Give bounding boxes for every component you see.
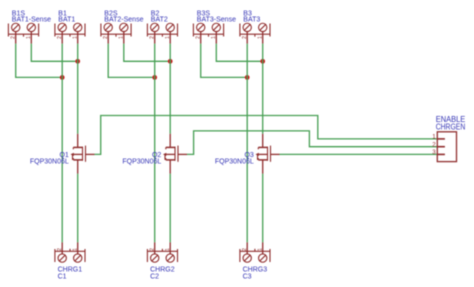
connector B2S pin 1 stub	[123, 32, 125, 44]
transistor Q1 gate pin	[86, 153, 95, 155]
svg-text:C3: C3	[243, 273, 252, 280]
connector CHRG3 pin 1 screw circle	[259, 254, 267, 262]
svg-text:1: 1	[165, 36, 171, 39]
svg-text:1: 1	[26, 36, 32, 39]
transistor Q1 body	[71, 146, 86, 162]
wire B2 pin1 down to Q2 drain	[169, 44, 171, 134]
wire B1S pin2 to B1 pin2 net	[16, 44, 63, 78]
transistor Q2 drain pin	[169, 134, 171, 148]
wire B1S pin1 to B1 pin1 net	[31, 44, 77, 62]
svg-text:1: 1	[258, 36, 264, 39]
connector B1S pin 2 stub	[15, 32, 17, 44]
wire Q3 gate to JP pin 3	[280, 153, 438, 155]
svg-text:1: 1	[119, 36, 125, 39]
transistor Q3 drain pin	[262, 134, 264, 148]
junction on B1 pin1 net	[75, 59, 80, 64]
connector CHRG1 pin 1 screw circle	[74, 254, 82, 262]
connector B1 pin 1 stub	[77, 32, 79, 44]
connector B1 bracket	[55, 24, 85, 37]
connector CHRG1 pin 2 stub	[61, 242, 63, 254]
svg-text:3: 3	[432, 149, 436, 156]
junction on B2 pin2 net	[152, 75, 157, 80]
junction on B1 pin2 net	[60, 75, 65, 80]
svg-text:2: 2	[103, 36, 109, 39]
connector CHRG2 pin 2 stub	[154, 242, 156, 254]
connector B3S pin 1 screw circle	[212, 23, 220, 31]
transistor Q2 gate pin	[178, 153, 187, 155]
connector B2 pin 1 screw circle	[166, 23, 174, 31]
connector CHRG1 pin 1 stub	[77, 242, 79, 254]
transistor Q2 body	[163, 146, 178, 162]
svg-text:1: 1	[258, 248, 264, 251]
wire B2S pin1 to B2 pin1 net	[124, 44, 170, 62]
transistor Q3 gate pin	[271, 153, 280, 155]
connector B3S pin 1 stub	[215, 32, 217, 44]
svg-text:BAT3: BAT3	[243, 16, 260, 23]
svg-text:2: 2	[57, 36, 63, 39]
wire Q1 gate to JP pin 1	[95, 116, 438, 155]
header pin 3 stub	[437, 153, 445, 155]
connector B2 bracket	[147, 24, 177, 37]
svg-text:BAT3-Sense: BAT3-Sense	[197, 16, 236, 23]
wire Q3 source down to CHRG3 pin1	[262, 174, 264, 243]
connector CHRG3 pin 1 stub	[262, 242, 264, 254]
connector B3S pin 2 stub	[200, 32, 202, 44]
connector B2 pin 2 stub	[154, 32, 156, 44]
connector B3S bracket	[193, 24, 223, 37]
svg-text:2: 2	[196, 36, 202, 39]
connector B3 bracket	[240, 24, 270, 37]
svg-text:BAT1: BAT1	[58, 16, 75, 23]
wire B3 pin1 down to Q3 drain	[262, 44, 264, 134]
svg-text:FQP30N06L: FQP30N06L	[122, 159, 161, 166]
connector B3 pin 1 stub	[262, 32, 264, 44]
connector B1 pin 2 screw circle	[58, 23, 66, 31]
wire Q2 gate to JP pin 2	[187, 131, 437, 155]
svg-text:2: 2	[242, 248, 248, 251]
connector B2 pin 1 stub	[169, 32, 171, 44]
wire B1 pin2 down to CHRG1 pin2	[61, 44, 63, 243]
connector B3S pin 2 screw circle	[197, 23, 205, 31]
svg-text:1: 1	[211, 36, 217, 39]
connector B1 pin 2 stub	[61, 32, 63, 44]
junction on B3 pin2 net	[245, 75, 250, 80]
connector B2S pin 1 screw circle	[120, 23, 128, 31]
svg-text:2: 2	[57, 248, 63, 251]
connector B3 pin 2 stub	[246, 32, 248, 44]
svg-text:CHRGEN: CHRGEN	[436, 122, 466, 131]
wire B2 pin2 down to CHRG2 pin2	[154, 44, 156, 243]
svg-text:2: 2	[11, 36, 17, 39]
header pin 1 stub	[437, 138, 445, 140]
connector B2S pin 2 stub	[107, 32, 109, 44]
svg-text:BAT1-Sense: BAT1-Sense	[12, 16, 51, 23]
svg-text:BAT2: BAT2	[151, 16, 168, 23]
svg-text:C2: C2	[150, 273, 159, 280]
wire B3S pin1 to B3 pin1 net	[216, 44, 262, 62]
svg-text:1: 1	[432, 134, 436, 141]
transistor Q2 source pin	[169, 160, 171, 174]
wire B1 pin1 down to Q1 drain	[77, 44, 79, 134]
wire Q2 source down to CHRG2 pin1	[169, 174, 171, 243]
transistor Q1 drain pin	[77, 134, 79, 148]
connector CHRG3 pin 2 screw circle	[243, 254, 251, 262]
junction on B3 pin1 net	[260, 59, 265, 64]
junction on B2 pin1 net	[168, 59, 173, 64]
transistor Q1 source pin	[77, 160, 79, 174]
svg-text:2: 2	[150, 36, 156, 39]
svg-text:2: 2	[150, 248, 156, 251]
connector CHRG2 pin 1 stub	[169, 242, 171, 254]
svg-text:FQP30N06L: FQP30N06L	[215, 159, 254, 166]
svg-text:2: 2	[432, 141, 436, 148]
connector CHRG2 pin 2 screw circle	[151, 254, 159, 262]
connector B1 pin 1 screw circle	[74, 23, 82, 31]
connector B3 pin 1 screw circle	[259, 23, 267, 31]
connector CHRG2 pin 1 screw circle	[166, 254, 174, 262]
svg-text:C1: C1	[58, 273, 67, 280]
wire B3 pin2 down to CHRG3 pin2	[246, 44, 248, 243]
connector B1S bracket	[8, 24, 38, 37]
svg-text:1: 1	[73, 36, 79, 39]
connector B3 pin 2 screw circle	[243, 23, 251, 31]
svg-text:FQP30N06L: FQP30N06L	[30, 159, 69, 166]
svg-text:1: 1	[165, 248, 171, 251]
connector ENABLE/CHRGEN header outline	[437, 132, 456, 162]
svg-text:1: 1	[73, 248, 79, 251]
connector CHRG1 pin 2 screw circle	[58, 254, 66, 262]
header pin 2 stub	[437, 146, 445, 148]
wire Q1 source down to CHRG1 pin1	[77, 174, 79, 243]
connector B2S pin 2 screw circle	[104, 23, 112, 31]
connector CHRG2 bracket	[147, 249, 177, 262]
transistor Q3 body	[256, 146, 271, 162]
svg-text:2: 2	[242, 36, 248, 39]
connector CHRG3 bracket	[240, 249, 270, 262]
connector B2S bracket	[101, 24, 131, 37]
connector B2 pin 2 screw circle	[151, 23, 159, 31]
connector CHRG3 pin 2 stub	[246, 242, 248, 254]
wire B3S pin2 to B3 pin2 net	[201, 44, 248, 78]
wire B2S pin2 to B2 pin2 net	[108, 44, 155, 78]
connector CHRG1 bracket	[55, 249, 85, 262]
transistor Q3 source pin	[262, 160, 264, 174]
connector B1S pin 2 screw circle	[12, 23, 20, 31]
connector B1S pin 1 screw circle	[27, 23, 35, 31]
svg-text:BAT2-Sense: BAT2-Sense	[104, 16, 143, 23]
connector B1S pin 1 stub	[30, 32, 32, 44]
